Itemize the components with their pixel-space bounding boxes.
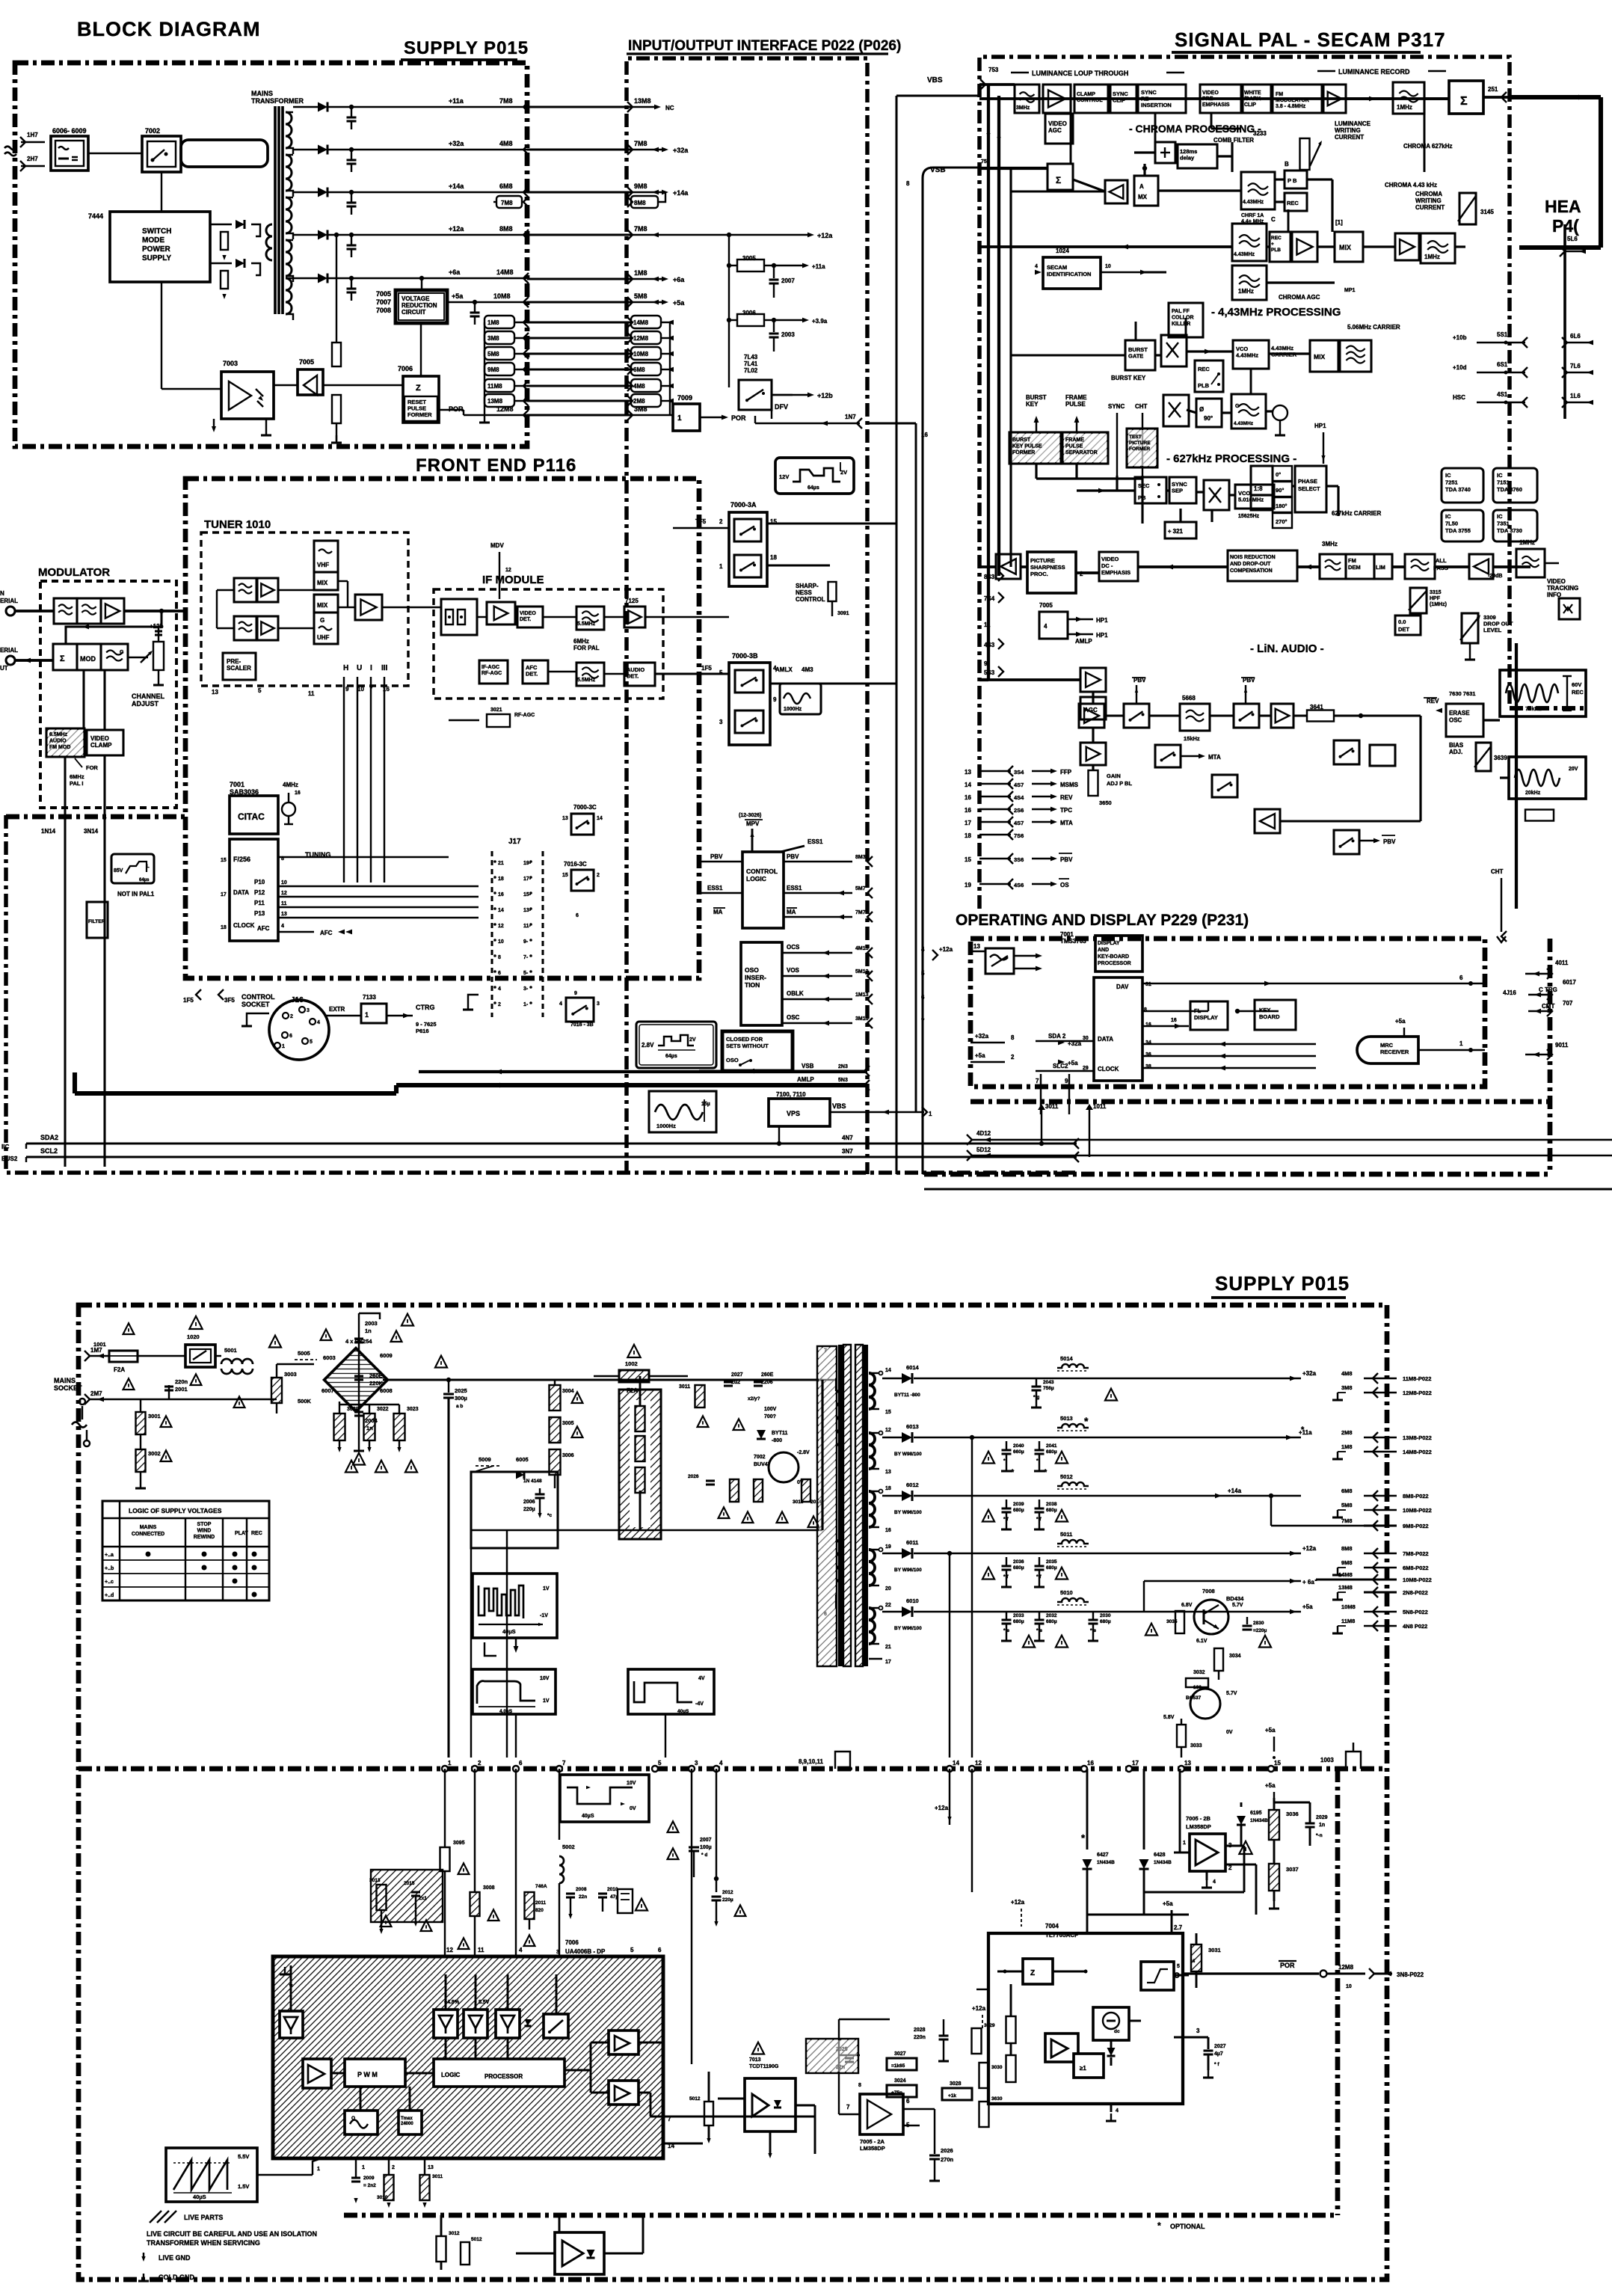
svg-text:7013: 7013	[749, 2057, 761, 2063]
svg-text:KEY: KEY	[1026, 401, 1039, 408]
svg-text:7125: 7125	[625, 598, 639, 604]
svg-text:3012: 3012	[449, 2231, 460, 2236]
svg-text:F2A: F2A	[114, 1366, 125, 1373]
svg-text:TDA 3755: TDA 3755	[1445, 527, 1471, 534]
ic cell feed wires	[445, 1974, 447, 2010]
svg-text:10M8: 10M8	[633, 351, 649, 357]
operating lower divider	[970, 1099, 1550, 1105]
svg-text:* f: * f	[1036, 1574, 1042, 1580]
svg-text:TDA 3730: TDA 3730	[1497, 527, 1522, 534]
ic out amp bottom	[609, 2081, 639, 2105]
svg-text:85V: 85V	[114, 868, 123, 874]
svg-text:BD434: BD434	[1226, 1595, 1244, 1602]
svg-text:251: 251	[1488, 86, 1498, 93]
svg-text:1M8: 1M8	[634, 269, 647, 277]
svg-text:+ 6a: + 6a	[1302, 1579, 1314, 1586]
svg-text:ADJ.: ADJ.	[1449, 749, 1462, 755]
svg-text:4S4: 4S4	[1014, 794, 1024, 801]
svg-text:4.43MHz: 4.43MHz	[1234, 252, 1255, 257]
svg-text:VPS: VPS	[787, 1110, 800, 1117]
svg-text:+14a: +14a	[673, 189, 689, 197]
cold gnd symbol legend	[143, 2274, 144, 2281]
svg-text:NC: NC	[665, 105, 674, 111]
fm modulator block	[1273, 85, 1322, 113]
svg-text:KEY: KEY	[1259, 1007, 1270, 1013]
svg-text:IC: IC	[1445, 472, 1451, 479]
svg-text:3003: 3003	[284, 1371, 297, 1378]
627 vco feedback	[1179, 509, 1181, 522]
svg-text:1N434B: 1N434B	[1250, 1818, 1268, 1823]
627 row wires	[1077, 489, 1135, 491]
audio erase wire	[1419, 716, 1421, 821]
svg-text:MIX: MIX	[1339, 244, 1351, 251]
svg-text:1: 1	[719, 563, 723, 570]
svg-text:7001: 7001	[230, 781, 244, 788]
ic switch cell	[544, 2014, 568, 2038]
svg-text:2036: 2036	[1013, 1559, 1024, 1565]
svg-text:SUPPLY P015: SUPPLY P015	[404, 38, 529, 58]
svg-text:3006: 3006	[742, 310, 756, 316]
svg-text:+12a: +12a	[972, 2005, 986, 2012]
svg-text:+3.9a: +3.9a	[812, 318, 828, 325]
svg-text:5668: 5668	[1182, 695, 1196, 702]
svg-text:8: 8	[858, 2083, 861, 2088]
svg-text:FORMER: FORMER	[1012, 450, 1035, 455]
svg-text:1MHz: 1MHz	[1519, 539, 1535, 546]
svg-text:DEM: DEM	[1348, 564, 1361, 571]
burst key pulse vertical wires	[1035, 464, 1037, 479]
svg-text:UHF: UHF	[317, 634, 330, 641]
svg-text:2: 2	[719, 518, 723, 525]
rf-agc pot 3021	[487, 714, 510, 727]
svg-text:12: 12	[281, 891, 287, 896]
svg-text:LUMINANCE LOUP THROUGH: LUMINANCE LOUP THROUGH	[1032, 70, 1128, 77]
svg-text:CONTROL: CONTROL	[796, 596, 825, 603]
cap 2001 220n	[168, 1385, 170, 1399]
svg-text:COMPENSATION: COMPENSATION	[1230, 568, 1273, 574]
audio fm mod block	[46, 728, 84, 757]
svg-text:BYT11: BYT11	[772, 1431, 788, 1436]
cap 2007 100u	[689, 1846, 699, 1848]
svg-text:1MHz: 1MHz	[1238, 288, 1254, 295]
svg-text:SDA2: SDA2	[40, 1134, 58, 1141]
svg-text:1N 4148: 1N 4148	[523, 1479, 542, 1484]
VBS entry wire top	[979, 95, 999, 96]
svg-text:2M7: 2M7	[90, 1390, 102, 1397]
svg-text:2: 2	[478, 1760, 482, 1766]
svg-text:AND: AND	[1098, 948, 1109, 953]
video agc amp	[1043, 85, 1071, 113]
tuner VHF mixer block	[314, 541, 338, 572]
sync clip block	[1110, 85, 1136, 113]
svg-text:HPF: HPF	[1430, 596, 1441, 601]
svg-text:2026: 2026	[941, 2147, 953, 2154]
triangle near opto	[752, 2042, 764, 2054]
svg-text:NOIS REDUCTION: NOIS REDUCTION	[1230, 555, 1276, 560]
svg-text:3031: 3031	[1208, 1947, 1221, 1953]
svg-text:680µ: 680µ	[1013, 1619, 1024, 1624]
svg-text:I: I	[370, 664, 372, 672]
svg-text:3001: 3001	[148, 1413, 161, 1419]
svg-text:12: 12	[505, 568, 511, 573]
svg-text:100µ: 100µ	[700, 1845, 712, 1850]
svg-text:680µ: 680µ	[1013, 1565, 1024, 1571]
svg-text:TF5: TF5	[695, 518, 707, 525]
svg-text:14M8: 14M8	[1338, 1571, 1353, 1578]
svg-text:1n: 1n	[1319, 1823, 1325, 1828]
svg-text:OS: OS	[1060, 882, 1069, 888]
svg-text:3028: 3028	[950, 2081, 962, 2087]
svg-text:MA: MA	[787, 909, 796, 915]
svg-text:19: 19	[885, 1544, 891, 1550]
svg-text:KEY PULSE: KEY PULSE	[1012, 444, 1042, 449]
svg-text:POR: POR	[1280, 1962, 1295, 1969]
bottom center resistor 5017	[461, 2242, 470, 2265]
transformer winding emphasis	[869, 1373, 875, 1409]
hatch patch near opto	[806, 2039, 858, 2073]
svg-text:680µ: 680µ	[1046, 1449, 1057, 1455]
chroma filter B 4.43	[1241, 172, 1275, 209]
PB REC boxes	[1285, 171, 1307, 188]
clamp control block	[1074, 85, 1108, 113]
svg-text:17: 17	[965, 820, 971, 826]
svg-text:VIDEO: VIDEO	[1547, 578, 1566, 585]
front end H U I III risers join	[258, 677, 259, 857]
svg-text:18: 18	[770, 554, 777, 561]
svg-text:4S1: 4S1	[1497, 391, 1508, 398]
cap 2008 22n	[566, 1892, 575, 1894]
supply to io bundle crossing wires	[527, 322, 633, 324]
svg-text:AUDIO: AUDIO	[49, 739, 67, 744]
svg-text:4: 4	[1044, 623, 1048, 630]
svg-text:+12a: +12a	[939, 946, 953, 953]
burst mixer M	[1161, 335, 1187, 366]
wire opamp to 7004	[935, 2108, 1045, 2110]
svg-text:H: H	[343, 664, 348, 672]
svg-text:PROC.: PROC.	[1030, 571, 1048, 577]
svg-text:4.43MHz: 4.43MHz	[1236, 352, 1258, 359]
svg-text:-2.8V: -2.8V	[797, 1450, 810, 1455]
svg-text:2032: 2032	[1046, 1613, 1057, 1618]
resistor 3008	[470, 1892, 480, 1916]
svg-text:8,9,10,11: 8,9,10,11	[799, 1758, 823, 1765]
svg-text:12: 12	[446, 1947, 453, 1953]
svg-text:2H7: 2H7	[27, 156, 38, 162]
svg-text:3M8: 3M8	[487, 335, 499, 342]
svg-text:2003: 2003	[365, 1320, 378, 1327]
svg-text:2M8: 2M8	[1341, 1429, 1353, 1436]
ic inner wires	[331, 2072, 345, 2075]
1MHz filter video	[1516, 549, 1545, 577]
svg-text:G: G	[120, 650, 124, 655]
control socket circle	[269, 1000, 329, 1060]
inner dash-dot pin row	[79, 1766, 1387, 1772]
svg-text:15625Hz: 15625Hz	[1238, 514, 1260, 519]
7004 small parts	[1006, 2016, 1016, 2043]
svg-text:6: 6	[519, 1760, 523, 1766]
svg-text:3021: 3021	[490, 707, 502, 713]
svg-text:7M8-P022: 7M8-P022	[1403, 1550, 1429, 1557]
rail capacitors bank1	[1036, 1378, 1037, 1387]
svg-text:REC: REC	[1198, 366, 1210, 372]
svg-text:4M13: 4M13	[855, 946, 869, 951]
svg-text:CHROMA: CHROMA	[1415, 191, 1442, 197]
supply aux rail bundle 1M8-13M8	[484, 316, 514, 328]
rec plb switch	[1195, 360, 1223, 392]
wire 7000-3A pin18	[767, 565, 830, 567]
svg-text:6S1: 6S1	[1497, 361, 1508, 368]
svg-text:CIRCUIT: CIRCUIT	[402, 309, 426, 316]
svg-text:7151: 7151	[1497, 479, 1510, 486]
svg-text:5L6: 5L6	[1567, 236, 1578, 242]
svg-text:III: III	[381, 664, 388, 672]
svg-text:÷ 321: ÷ 321	[1168, 528, 1184, 535]
svg-text:2.8V: 2.8V	[642, 1042, 654, 1049]
svg-text:N: N	[0, 590, 4, 597]
svg-text:7-: 7-	[523, 955, 529, 960]
svg-text:WRITING: WRITING	[1335, 127, 1361, 134]
svg-text:746A: 746A	[535, 1884, 547, 1889]
svg-text:SEPARATOR: SEPARATOR	[1065, 450, 1098, 455]
svg-text:7000-3A: 7000-3A	[730, 501, 757, 509]
svg-text:7005: 7005	[376, 290, 391, 298]
audio switch 2	[1234, 704, 1259, 728]
wire 7002 down to SMPS	[161, 172, 162, 212]
svg-text:AFC: AFC	[257, 925, 270, 932]
00 det block	[1395, 616, 1421, 635]
audio vertical taps	[1092, 692, 1094, 704]
afc det block	[523, 660, 548, 684]
svg-text:2: 2	[392, 2165, 395, 2170]
svg-text:MTA: MTA	[1208, 754, 1221, 761]
svg-text:7L50: 7L50	[1445, 521, 1458, 527]
comb filter wires	[1134, 151, 1155, 153]
svg-text:PBV: PBV	[710, 853, 723, 860]
wire 7005-2B out down to 7004	[1255, 1864, 1258, 1915]
resistor 3024	[887, 2085, 917, 2097]
diode 6195	[1237, 1816, 1246, 1825]
svg-text:FILTER: FILTER	[88, 919, 105, 924]
svg-text:VBS: VBS	[832, 1102, 846, 1110]
svg-text:PLAY: PLAY	[235, 1531, 248, 1536]
chroma sum block	[1048, 164, 1073, 190]
wire +6a to VRC	[421, 278, 422, 290]
lum 1MHz filter	[1393, 82, 1424, 114]
divider 321 block	[1165, 522, 1196, 538]
svg-text:9: 9	[1065, 1078, 1068, 1084]
+6a +5a arrows mid	[1144, 1580, 1301, 1582]
svg-text:2027: 2027	[731, 1372, 743, 1378]
hatched band left of cluster	[371, 1870, 443, 1922]
frame pulse separator block	[1062, 432, 1108, 464]
svg-text:MSMS: MSMS	[1060, 782, 1079, 788]
svg-text:14M8: 14M8	[496, 268, 514, 276]
ic tmax block	[399, 2111, 422, 2134]
svg-text:* e: * e	[1090, 1628, 1096, 1633]
svg-text:680µ: 680µ	[1046, 1619, 1057, 1624]
svg-text:GAIN: GAIN	[1107, 773, 1121, 779]
waveform reference box 2.8V	[636, 1022, 716, 1068]
svg-text:8M8: 8M8	[634, 200, 646, 206]
svg-text:9M8: 9M8	[1341, 1559, 1353, 1566]
svg-text:dc: dc	[1114, 2029, 1120, 2034]
svg-text:Z: Z	[416, 384, 421, 393]
vco 443 block	[1233, 340, 1269, 369]
svg-text:MPV: MPV	[746, 820, 760, 827]
svg-text:IDENTIFICATION: IDENTIFICATION	[1047, 271, 1091, 277]
svg-text:7: 7	[1036, 1078, 1039, 1084]
svg-text:7L6: 7L6	[1570, 363, 1581, 369]
svg-text:x2/y?: x2/y?	[748, 1396, 760, 1402]
live parts legend	[150, 2211, 176, 2223]
svg-text:LEVEL: LEVEL	[1483, 627, 1502, 633]
svg-text:680µ: 680µ	[1046, 1508, 1057, 1513]
svg-text:[1]: [1]	[1335, 219, 1343, 226]
svg-text:4.43MHz: 4.43MHz	[1234, 421, 1254, 426]
svg-text:1M8: 1M8	[1341, 1443, 1353, 1450]
svg-text:TRANSFORMER WHEN SERVICING: TRANSFORMER WHEN SERVICING	[147, 2239, 260, 2247]
modulator bottom dash-dot crossing	[6, 814, 185, 820]
svg-text:UT: UT	[0, 665, 8, 672]
bottom center block wires	[559, 2215, 561, 2232]
warning triangle 7004	[1239, 1841, 1252, 1854]
svg-text:* f: * f	[1003, 1574, 1009, 1580]
svg-text:9011: 9011	[1555, 1042, 1569, 1049]
audio chain wires	[1106, 714, 1124, 716]
svg-text:2039: 2039	[1013, 1502, 1024, 1507]
svg-text:SHARP-: SHARP-	[796, 583, 819, 589]
svg-text:VIDEO: VIDEO	[1048, 120, 1067, 127]
noise reduction block	[1228, 550, 1297, 581]
svg-text:+..a: +..a	[105, 1553, 114, 1558]
svg-text:LM358DP: LM358DP	[1186, 1823, 1211, 1830]
pal row 8 thick wire	[979, 678, 988, 681]
svg-text:64µs: 64µs	[807, 485, 819, 491]
svg-text:G: G	[320, 617, 324, 624]
audio amp3	[1271, 704, 1293, 728]
svg-text:PBV: PBV	[787, 853, 799, 860]
svg-text:4 x BY254: 4 x BY254	[345, 1338, 372, 1345]
svg-text:P13: P13	[254, 910, 265, 917]
svg-text:EMPHASIS: EMPHASIS	[1101, 569, 1130, 576]
svg-text:4M3: 4M3	[802, 666, 813, 673]
svg-text:BC537: BC537	[1186, 1695, 1202, 1701]
svg-text:3006: 3006	[562, 1453, 574, 1458]
svg-text:6M8-P022: 6M8-P022	[1403, 1565, 1429, 1571]
svg-text:1: 1	[282, 1044, 285, 1049]
svg-text:1F5: 1F5	[183, 997, 194, 1004]
svg-text:3-: 3-	[523, 986, 529, 992]
wire 7006 to POR	[439, 409, 464, 411]
pbv switches right	[1334, 740, 1359, 764]
svg-text:CHROMA 627kHz: CHROMA 627kHz	[1403, 143, 1453, 150]
svg-text:* f: * f	[1003, 1517, 1009, 1522]
scope box 3 pulse	[628, 1669, 714, 1714]
svg-text:CHROMA 4.43 kHz: CHROMA 4.43 kHz	[1385, 182, 1437, 188]
svg-text:14: 14	[953, 1760, 959, 1766]
svg-text:B: B	[1285, 161, 1289, 168]
control socket ground	[247, 1013, 269, 1019]
svg-text:2038: 2038	[1046, 1502, 1057, 1507]
251 output arrow	[1483, 96, 1510, 99]
svg-text:DFV: DFV	[775, 403, 788, 411]
svg-text:BY W96/100: BY W96/100	[894, 1626, 922, 1631]
svg-text:40µS: 40µS	[502, 1628, 516, 1635]
svg-text:≥1: ≥1	[1080, 2065, 1086, 2072]
control logic block	[742, 852, 784, 928]
wire ic pin7 to opto	[703, 2098, 718, 2099]
sync cht long verticals	[1116, 476, 1118, 491]
svg-text:REWIND: REWIND	[194, 1535, 215, 1540]
svg-text:TRACKING: TRACKING	[1547, 585, 1578, 592]
burst key pulse former block	[1009, 432, 1061, 464]
svg-text:7007: 7007	[376, 298, 391, 306]
cap 2026 270n	[934, 2109, 935, 2154]
svg-text:RF-AGC: RF-AGC	[482, 671, 502, 676]
audio switch 1	[1124, 704, 1149, 728]
svg-text:SLC2: SLC2	[1053, 1063, 1068, 1069]
ic legend 7151	[1493, 468, 1537, 503]
resistor 3028	[942, 2088, 972, 2100]
svg-text:13M8-P022: 13M8-P022	[1403, 1434, 1432, 1441]
svg-text:4S6: 4S6	[1014, 882, 1024, 888]
7004 bottom wire	[976, 1989, 988, 1990]
dav wire to right edge	[1142, 983, 1471, 984]
transformer primary feed wires	[821, 1380, 823, 1530]
svg-text:= 2n2: = 2n2	[363, 2183, 376, 2188]
svg-text:6L6: 6L6	[1570, 333, 1581, 340]
svg-text:2029: 2029	[1316, 1815, 1328, 1820]
svg-text:-4V: -4V	[695, 1701, 704, 1707]
svg-text:MIX: MIX	[1314, 353, 1325, 360]
5a to connectors wire	[1228, 1616, 1301, 1618]
svg-text:5M8: 5M8	[487, 351, 499, 357]
luminance loop through label	[1011, 72, 1029, 73]
svg-text:4: 4	[1035, 264, 1038, 269]
svg-text:A: A	[1139, 183, 1144, 190]
svg-text:0V: 0V	[630, 1806, 636, 1811]
svg-text:4.43MHz: 4.43MHz	[1243, 200, 1264, 205]
svg-text:FORMER: FORMER	[1129, 446, 1150, 452]
warning triangles mains	[123, 1323, 135, 1334]
svg-text:40µS: 40µS	[582, 1814, 594, 1819]
svg-text:CONNECTED: CONNECTED	[132, 1532, 164, 1537]
svg-text:100V: 100V	[764, 1407, 777, 1412]
svg-text:13M8: 13M8	[634, 97, 651, 105]
svg-text:PROCESSOR: PROCESSOR	[1098, 961, 1131, 966]
svg-text:1001: 1001	[93, 1341, 106, 1348]
video chain wires	[979, 565, 996, 568]
svg-text:5.06MHz CARRIER: 5.06MHz CARRIER	[1347, 324, 1400, 331]
left cluster caps 2013 2015	[377, 1885, 387, 1910]
svg-text:14: 14	[885, 1368, 891, 1373]
svg-text:21: 21	[498, 861, 504, 866]
svg-text:LM358DP: LM358DP	[860, 2145, 885, 2152]
svg-text:6006- 6009: 6006- 6009	[52, 127, 87, 135]
svg-text:7005 - 2B: 7005 - 2B	[1186, 1815, 1211, 1822]
svg-text:7444: 7444	[88, 212, 103, 220]
svg-text:OBLK: OBLK	[787, 990, 804, 997]
svg-text:2012: 2012	[722, 1890, 733, 1895]
svg-text:2009: 2009	[363, 2176, 375, 2181]
svg-text:*: *	[1044, 1468, 1048, 1477]
svg-text:10V: 10V	[627, 1781, 636, 1786]
svg-text:CLOCK: CLOCK	[1098, 1066, 1119, 1072]
svg-text:7L41: 7L41	[744, 360, 758, 367]
svg-text:3010: 3010	[377, 2195, 388, 2200]
ic osc block	[345, 2111, 378, 2134]
cap 2027 4u7	[1208, 2037, 1210, 2049]
